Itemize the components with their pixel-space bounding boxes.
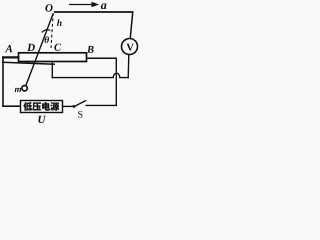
wire voltmeter to bottom corner [127,55,130,79]
under-bar line [2,62,55,64]
wire bottom-left [2,105,20,107]
pendulum bob m [22,86,27,91]
wire switch to right [86,104,118,106]
wire tap to C [51,61,53,79]
wire stub left of bar [2,56,20,58]
wire left vertical [2,57,4,107]
angle arc [42,30,51,33]
power supply box [21,101,63,113]
wire O to top-right [54,11,134,13]
label A [5,45,12,52]
dashed vertical line h [51,13,53,48]
voltmeter V [122,39,138,55]
switch S lever [75,100,87,106]
label h [57,19,62,26]
wire right side upper [130,11,133,38]
label U [38,116,46,123]
label D [27,44,35,51]
node O [45,4,52,11]
wire box to switch [63,105,74,107]
label B [87,46,94,53]
pendulum string [26,14,53,86]
wire bottom horizontal with hop [52,73,129,77]
label theta [45,36,49,43]
label C [54,44,61,51]
wire B vertical [115,58,117,106]
switch S contact dot [73,105,76,108]
resistance bar AB [19,53,87,62]
label S [78,111,82,118]
wire stub right of bar [87,57,118,59]
acceleration arrow [69,2,99,8]
label m [15,88,21,92]
label a [101,3,107,9]
